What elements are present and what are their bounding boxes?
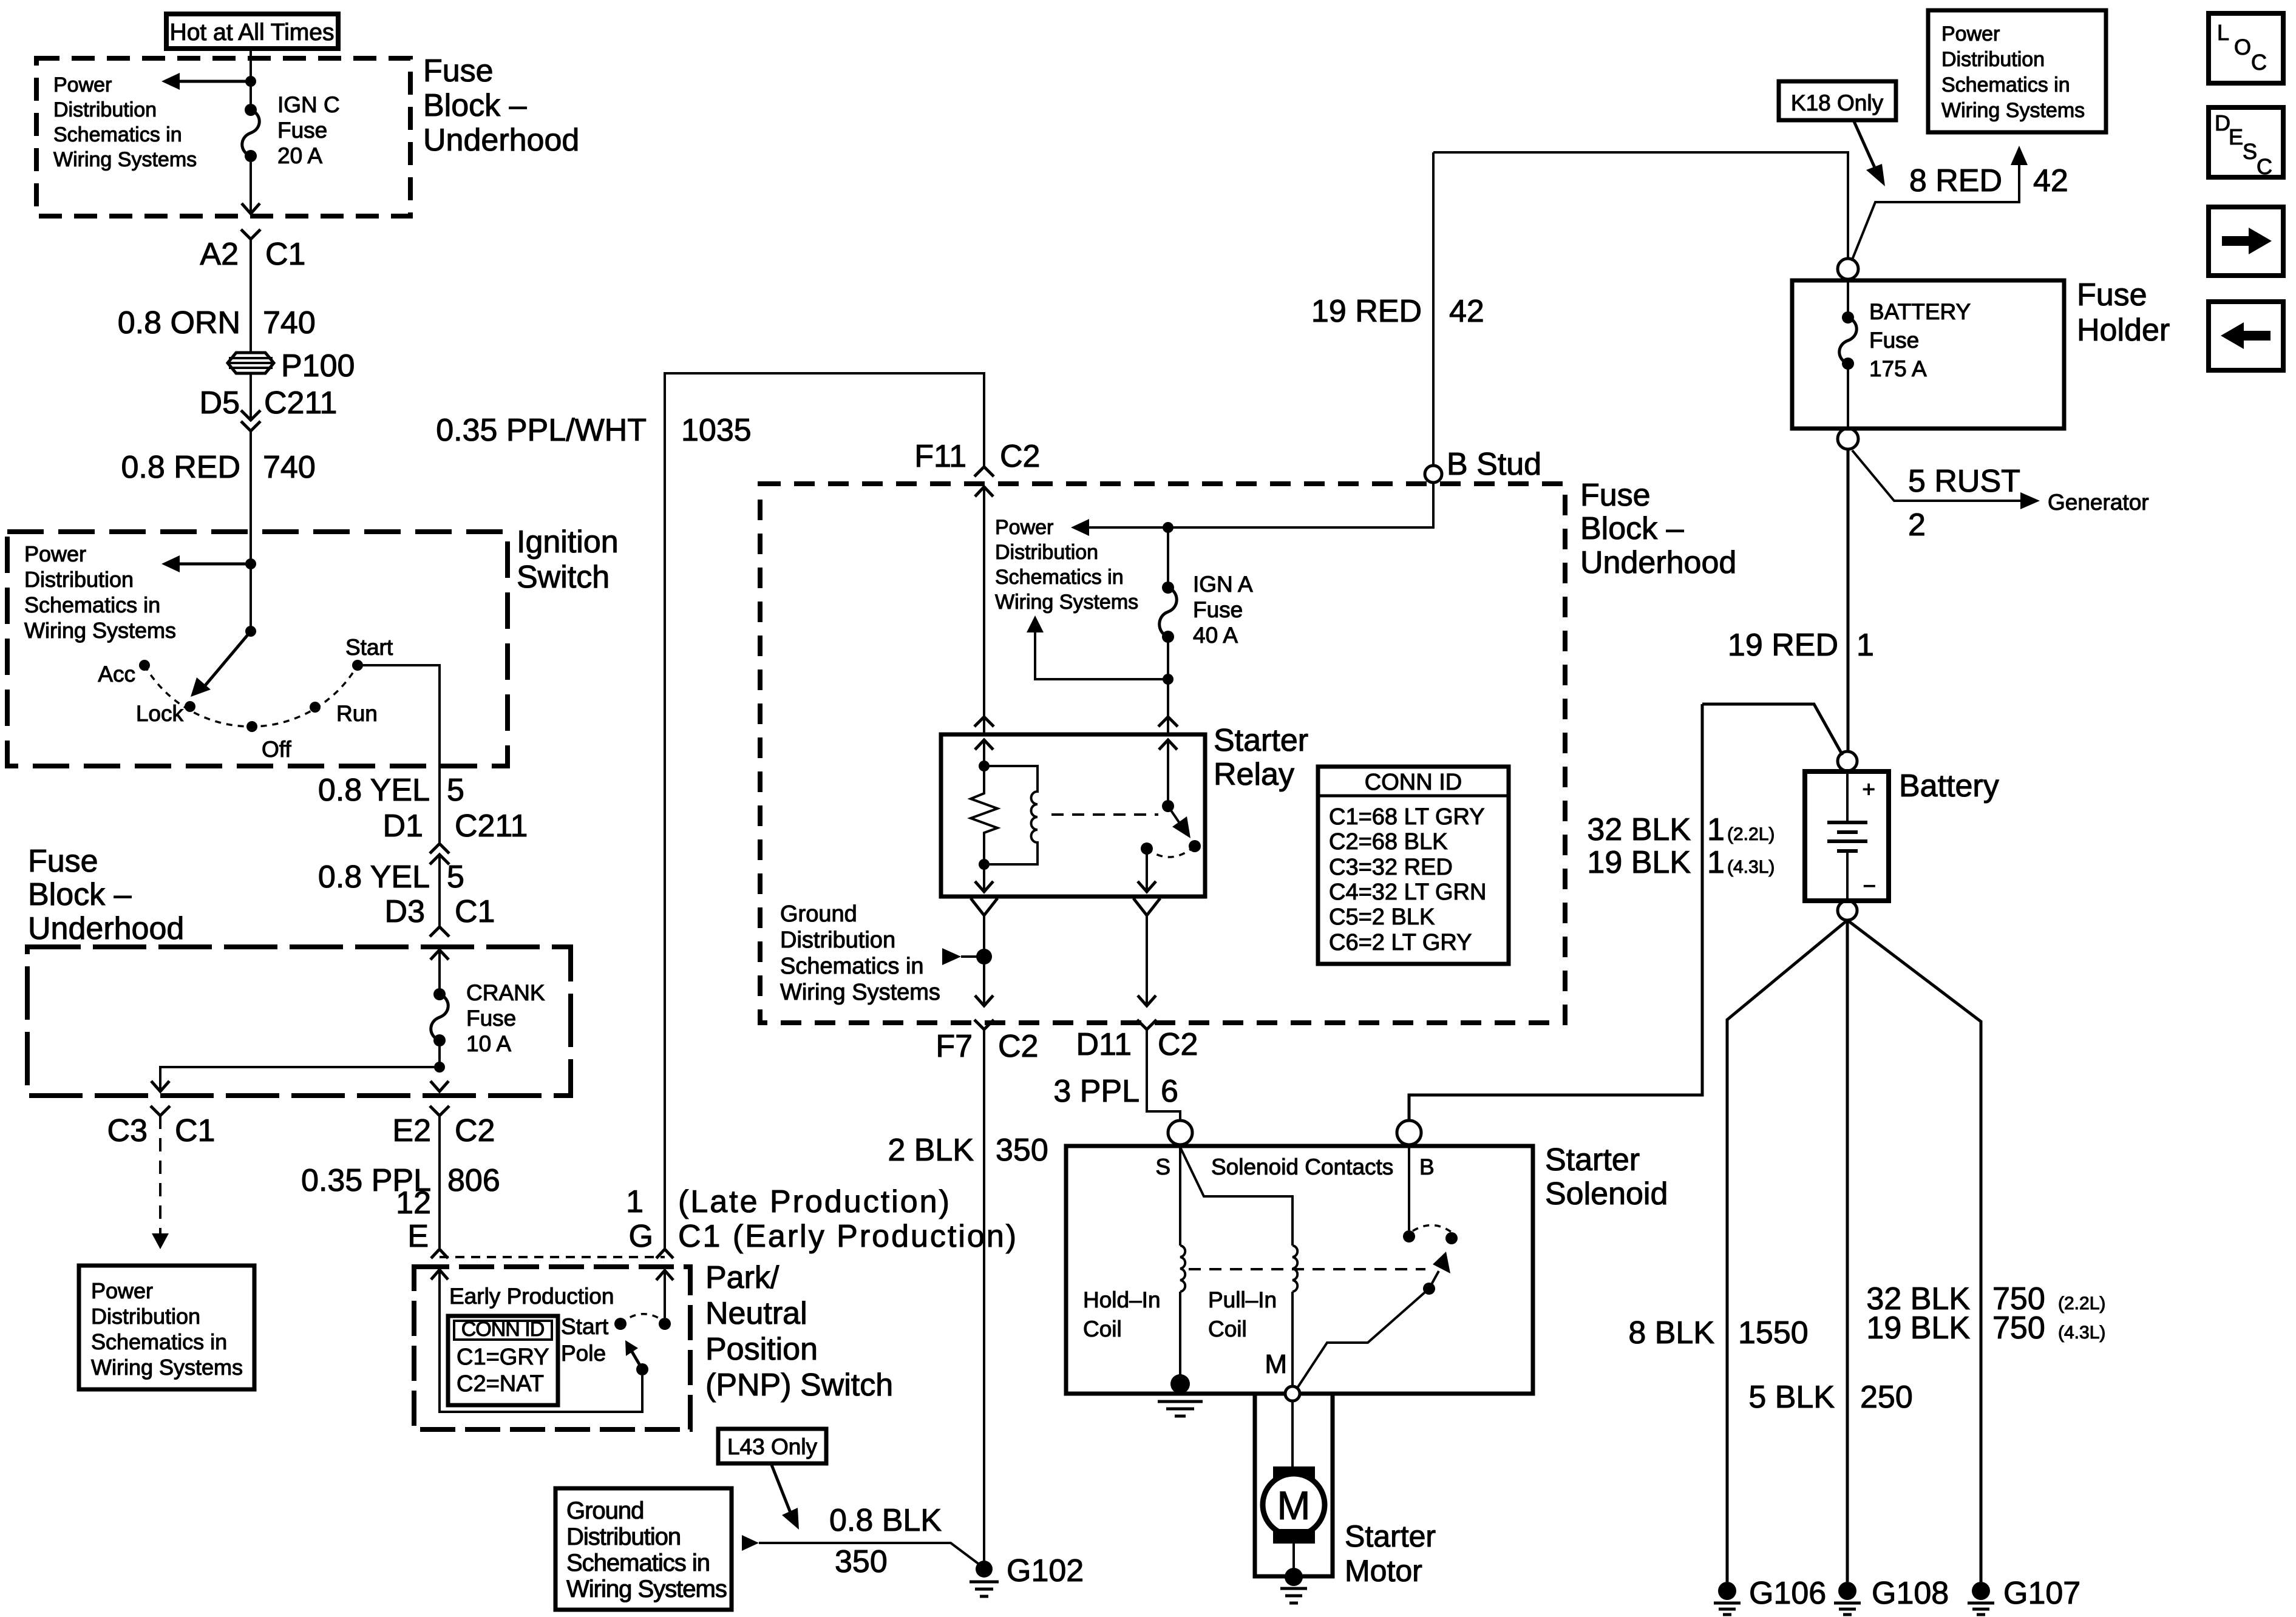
svg-text:D5: D5 bbox=[200, 385, 240, 421]
exit arrow D11 bbox=[1138, 995, 1156, 1006]
svg-text:0.8 BLK: 0.8 BLK bbox=[829, 1503, 942, 1538]
svg-text:L: L bbox=[2217, 20, 2229, 45]
svg-text:Fuse: Fuse bbox=[466, 1006, 516, 1031]
fuse IGN C 20 A bbox=[242, 92, 340, 168]
wire 0.35 PPL/WHT 1035 riser bbox=[665, 373, 984, 1249]
svg-text:C1=68 LT GRY: C1=68 LT GRY bbox=[1329, 804, 1485, 830]
wire from Hot at All Times to fuse IGN C bbox=[250, 49, 252, 110]
svg-text:Park/: Park/ bbox=[705, 1260, 779, 1295]
nav box arrow left bbox=[2209, 302, 2283, 370]
svg-text:Fuse: Fuse bbox=[2077, 277, 2147, 313]
svg-text:C3=32 RED: C3=32 RED bbox=[1329, 855, 1453, 880]
svg-text:Block –: Block – bbox=[28, 877, 132, 912]
svg-text:0.8 YEL: 0.8 YEL bbox=[318, 773, 430, 808]
svg-text:C2=NAT: C2=NAT bbox=[457, 1371, 544, 1397]
svg-text:C5=2 BLK: C5=2 BLK bbox=[1329, 904, 1435, 930]
svg-text:CONN ID: CONN ID bbox=[1365, 770, 1462, 795]
svg-text:Start: Start bbox=[561, 1314, 609, 1339]
connector chevron G bbox=[656, 1249, 673, 1258]
svg-text:5: 5 bbox=[447, 859, 464, 895]
arrow from K18 Only bbox=[1853, 120, 1885, 186]
svg-text:A2: A2 bbox=[200, 237, 239, 272]
connector C3 C1 bbox=[107, 1106, 216, 1148]
svg-text:D3: D3 bbox=[385, 894, 425, 929]
connector D3 C1 bbox=[385, 894, 495, 937]
wire fuse to box edge with exit arrow bbox=[242, 156, 260, 214]
label 32 BLK 1 (2.2L) bbox=[1587, 812, 1775, 847]
node junction dot on RED wire bbox=[245, 558, 256, 569]
relay coil terminal arrow (left) bbox=[975, 740, 993, 766]
node relay output contact dot bbox=[1141, 842, 1153, 855]
label 3 PPL 6 bbox=[1053, 1074, 1178, 1109]
connector A2 C1 bbox=[200, 229, 305, 272]
svg-text:Coil: Coil bbox=[1208, 1317, 1247, 1341]
wire 8 RED 42 branch with arrow up bbox=[1852, 146, 2028, 261]
svg-text:Starter: Starter bbox=[1345, 1519, 1436, 1553]
svg-text:750: 750 bbox=[1992, 1310, 2045, 1346]
dashed contact arc (solenoid) bbox=[1413, 1225, 1452, 1232]
node B terminal ring bbox=[1397, 1120, 1421, 1145]
starter solenoid box bbox=[1066, 1146, 1533, 1394]
svg-text:Fuse: Fuse bbox=[277, 118, 327, 143]
svg-text:M: M bbox=[1277, 1483, 1311, 1528]
label Starter Relay bbox=[1214, 723, 1308, 792]
ignition switch dashed box bbox=[7, 532, 508, 766]
svg-text:42: 42 bbox=[2033, 163, 2068, 198]
fuse IGN A 40 A bbox=[1160, 527, 1253, 648]
svg-text:Battery: Battery bbox=[1899, 768, 1999, 804]
table CONN ID (fuse block) bbox=[1318, 767, 1509, 964]
label Pull-In Coil bbox=[1208, 1287, 1277, 1341]
svg-text:F7: F7 bbox=[936, 1029, 973, 1064]
svg-text:F11: F11 bbox=[914, 439, 966, 474]
node relay NO contact dot bbox=[1189, 840, 1201, 852]
wire B terminal to battery junction bbox=[1409, 704, 1702, 1120]
fuse holder box bbox=[1792, 280, 2064, 429]
svg-text:Schematics in: Schematics in bbox=[91, 1329, 227, 1354]
node fuse holder top ring bbox=[1838, 259, 1858, 279]
svg-text:Ground: Ground bbox=[780, 901, 857, 927]
starter motor case bbox=[1255, 1394, 1333, 1576]
connector chevron E bbox=[431, 1249, 448, 1258]
svg-text:Fuse: Fuse bbox=[1193, 597, 1243, 622]
note Ground Distribution Schematics in Wiring Systems (middle) bbox=[780, 901, 977, 1005]
svg-text:C3: C3 bbox=[107, 1113, 148, 1148]
svg-text:IGN A: IGN A bbox=[1193, 572, 1253, 597]
svg-text:Generator: Generator bbox=[2048, 490, 2149, 515]
svg-text:Schematics in: Schematics in bbox=[995, 566, 1124, 589]
ground G108 bbox=[1834, 1576, 1949, 1615]
node blade pivot dot bbox=[1423, 1283, 1435, 1295]
wire dashed to power note bbox=[159, 1116, 161, 1233]
wire branch arrow up (power distribution) bbox=[1027, 615, 1168, 679]
svg-text:8 BLK: 8 BLK bbox=[1628, 1315, 1714, 1351]
arrow to power note (middle) bbox=[1071, 519, 1089, 536]
svg-text:Wiring Systems: Wiring Systems bbox=[566, 1576, 727, 1602]
node coil top dot bbox=[979, 761, 990, 771]
svg-text:Wiring Systems: Wiring Systems bbox=[91, 1355, 243, 1380]
svg-text:IGN C: IGN C bbox=[277, 92, 340, 117]
node fuse holder bottom ring bbox=[1838, 429, 1858, 449]
svg-text:Fuse: Fuse bbox=[28, 844, 98, 879]
svg-text:Power: Power bbox=[53, 73, 112, 97]
switch rotor arrow toward Lock bbox=[191, 631, 251, 697]
ground starter motor bbox=[1280, 1568, 1307, 1603]
svg-text:C1=GRY: C1=GRY bbox=[457, 1344, 549, 1370]
svg-text:C2: C2 bbox=[455, 1113, 495, 1148]
svg-text:CONN ID: CONN ID bbox=[461, 1318, 545, 1341]
svg-text:0.8 RED: 0.8 RED bbox=[121, 450, 240, 485]
svg-text:(4.3L): (4.3L) bbox=[1727, 857, 1775, 877]
dashed contact arc (relay) bbox=[1147, 846, 1195, 857]
label 0.8 YEL 5 (second) bbox=[318, 859, 464, 895]
connector D11 C2 bbox=[1076, 1020, 1198, 1062]
wire Start to box edge bbox=[358, 665, 440, 844]
svg-text:Pole: Pole bbox=[561, 1341, 606, 1366]
svg-text:Neutral: Neutral bbox=[705, 1296, 807, 1331]
svg-text:C211: C211 bbox=[264, 385, 337, 421]
svg-text:Wiring Systems: Wiring Systems bbox=[1941, 99, 2085, 122]
note Power Distribution Schematics in Wiring Systems (middle) bbox=[995, 516, 1138, 614]
wire 0.8 BLK 350 to G102 bbox=[742, 1535, 982, 1567]
svg-text:5: 5 bbox=[447, 773, 464, 808]
arrow from L43 Only bbox=[771, 1463, 799, 1530]
label 19 RED 42 bbox=[1311, 294, 1484, 329]
label Starter Motor bbox=[1345, 1519, 1436, 1588]
svg-text:Fuse: Fuse bbox=[423, 53, 494, 89]
svg-text:Power: Power bbox=[24, 541, 86, 566]
svg-text:Power: Power bbox=[91, 1278, 153, 1303]
svg-text:19 BLK: 19 BLK bbox=[1866, 1310, 1970, 1346]
svg-text:12: 12 bbox=[396, 1185, 431, 1221]
svg-text:Acc: Acc bbox=[98, 662, 135, 686]
svg-text:Lock: Lock bbox=[136, 701, 184, 726]
wire motor to ground bbox=[1292, 1544, 1295, 1572]
label 19 BLK 750 (4.3L) bbox=[1866, 1310, 2105, 1346]
connector F7 C2 bbox=[936, 1020, 1038, 1064]
svg-text:1035: 1035 bbox=[681, 413, 752, 448]
note Power Distribution Schematics in Wiring Systems (bottom left box) bbox=[79, 1266, 254, 1389]
svg-text:Fuse: Fuse bbox=[1580, 478, 1651, 513]
label Fuse Block - Underhood (left) bbox=[28, 844, 184, 946]
svg-text:E: E bbox=[407, 1219, 429, 1254]
label 2 BLK 350 bbox=[888, 1133, 1048, 1168]
svg-text:C2=68 BLK: C2=68 BLK bbox=[1329, 829, 1447, 855]
relay blade arrow bbox=[1168, 806, 1190, 838]
splice P100 bbox=[228, 348, 355, 384]
svg-text:19 BLK: 19 BLK bbox=[1587, 845, 1691, 880]
wire B Stud feed 19 RED 42 bbox=[1087, 152, 1848, 527]
wire F11 entry arrow down to relay bbox=[975, 487, 993, 733]
pin 12 E labels bbox=[396, 1185, 431, 1254]
svg-text:C1: C1 bbox=[265, 237, 305, 272]
svg-text:C1: C1 bbox=[455, 894, 495, 929]
wire E2 to PNP switch bbox=[438, 1116, 441, 1248]
label Park/Neutral Position (PNP) Switch bbox=[705, 1260, 893, 1403]
svg-text:Distribution: Distribution bbox=[566, 1524, 681, 1550]
svg-text:Wiring Systems: Wiring Systems bbox=[24, 618, 176, 643]
ignition switch contact arc (dashed) bbox=[144, 665, 358, 727]
svg-text:6: 6 bbox=[1161, 1074, 1178, 1109]
node ground-note junction dot bbox=[976, 949, 992, 964]
svg-text:C2: C2 bbox=[1000, 439, 1040, 474]
node junction dot bbox=[245, 76, 256, 87]
svg-text:0.8 YEL: 0.8 YEL bbox=[318, 859, 430, 895]
wire A2 to P100 bbox=[250, 239, 252, 353]
contact Run bbox=[310, 701, 378, 726]
wire E entry arrow and path to moving contact bbox=[431, 1270, 642, 1412]
svg-text:1550: 1550 bbox=[1738, 1315, 1809, 1351]
svg-text:Block –: Block – bbox=[1580, 511, 1684, 546]
node S terminal ring bbox=[1168, 1120, 1192, 1145]
svg-text:1: 1 bbox=[1856, 628, 1874, 663]
wire M terminal to motor bbox=[1291, 1401, 1294, 1468]
svg-text:Starter: Starter bbox=[1214, 723, 1308, 758]
node switch common dot bbox=[1162, 800, 1174, 812]
wire below fuse with junction bbox=[1167, 637, 1169, 679]
connector E2 C2 bbox=[392, 1106, 495, 1148]
wire generator branch 5 RUST 2 bbox=[1852, 450, 2040, 509]
svg-text:Starter: Starter bbox=[1545, 1142, 1640, 1178]
svg-text:740: 740 bbox=[263, 305, 316, 341]
label box L43 Only bbox=[718, 1429, 826, 1463]
svg-text:10 A: 10 A bbox=[466, 1031, 511, 1056]
svg-text:Run: Run bbox=[336, 701, 378, 726]
wire relay to F7 bbox=[983, 915, 985, 1004]
svg-text:Position: Position bbox=[705, 1332, 818, 1367]
node M terminal ring bbox=[1285, 1386, 1300, 1401]
relay linkage dashed bbox=[1051, 813, 1158, 816]
svg-text:Ground: Ground bbox=[566, 1497, 644, 1524]
svg-text:5 RUST: 5 RUST bbox=[1908, 464, 2020, 499]
svg-text:+: + bbox=[1862, 777, 1875, 802]
svg-text:L43 Only: L43 Only bbox=[727, 1434, 818, 1459]
svg-text:Distribution: Distribution bbox=[995, 541, 1098, 564]
node NO contact dot bbox=[1445, 1232, 1458, 1244]
wire entry arrow into fuse block bbox=[430, 950, 449, 994]
svg-text:Distribution: Distribution bbox=[1941, 48, 2045, 71]
svg-text:Relay: Relay bbox=[1214, 757, 1294, 792]
svg-text:BATTERY: BATTERY bbox=[1869, 299, 1971, 324]
note Power Distribution Schematics in Wiring Systems (top left) bbox=[53, 73, 197, 171]
svg-text:Schematics in: Schematics in bbox=[1941, 73, 2070, 97]
svg-text:Start: Start bbox=[345, 635, 393, 660]
wire F7 to G102 bbox=[983, 1029, 985, 1562]
svg-text:C1: C1 bbox=[175, 1113, 215, 1148]
contact Start bbox=[345, 635, 393, 671]
svg-text:175 A: 175 A bbox=[1869, 356, 1927, 381]
svg-text:250: 250 bbox=[1860, 1380, 1913, 1415]
svg-text:C2: C2 bbox=[1158, 1027, 1198, 1062]
label box DESC bbox=[2209, 107, 2283, 179]
svg-text:2: 2 bbox=[1908, 507, 1926, 543]
svg-text:1: 1 bbox=[626, 1184, 644, 1219]
contact Acc bbox=[98, 660, 150, 686]
contact Off bbox=[246, 721, 291, 762]
wire S into solenoid, hold-in branch bbox=[1179, 1145, 1181, 1246]
relay switch common arrow (right) bbox=[1159, 740, 1177, 806]
svg-text:Ignition: Ignition bbox=[517, 524, 619, 560]
pole arrow up to G bbox=[656, 1270, 673, 1318]
label Ignition Switch bbox=[517, 524, 619, 595]
fuse block underhood dashed box (top left) bbox=[36, 58, 410, 216]
wire to relay right terminal bbox=[1167, 679, 1169, 733]
svg-text:0.35 PPL/WHT: 0.35 PPL/WHT bbox=[436, 413, 647, 448]
svg-text:32 BLK: 32 BLK bbox=[1587, 812, 1691, 847]
wire pull-in branch bbox=[1180, 1147, 1292, 1246]
wire D5 to ignition switch bbox=[250, 431, 252, 564]
battery box bbox=[1805, 771, 1889, 901]
svg-text:42: 42 bbox=[1449, 294, 1484, 329]
svg-text:Off: Off bbox=[262, 737, 291, 762]
label box LOC bbox=[2209, 13, 2283, 83]
node rotor dot bbox=[245, 626, 256, 637]
connector D1 C211 bbox=[383, 808, 528, 864]
wire fuse to bottom ring bbox=[1847, 364, 1849, 429]
svg-text:2 BLK: 2 BLK bbox=[888, 1133, 974, 1168]
svg-text:Pull–In: Pull–In bbox=[1208, 1287, 1277, 1312]
motor brush top bbox=[1273, 1466, 1315, 1481]
svg-text:Wiring Systems: Wiring Systems bbox=[780, 980, 940, 1005]
svg-text:1: 1 bbox=[1707, 812, 1725, 847]
label Fuse Block - Underhood (middle right) bbox=[1580, 478, 1736, 580]
svg-text:(Late Production): (Late Production) bbox=[678, 1184, 951, 1219]
solenoid linkage dashed bbox=[1189, 1268, 1425, 1270]
svg-text:Schematics in: Schematics in bbox=[24, 592, 160, 617]
wire D1 to D3 bbox=[438, 855, 441, 927]
label 8 BLK 1550 bbox=[1628, 1315, 1808, 1351]
pin 1 G labels bbox=[626, 1184, 653, 1254]
svg-text:350: 350 bbox=[996, 1133, 1048, 1168]
exit arrow C3 branch bbox=[151, 1081, 169, 1091]
node battery negative ring bbox=[1838, 901, 1857, 920]
svg-text:P100: P100 bbox=[281, 348, 355, 384]
fuse block underhood dashed box (left) bbox=[27, 947, 571, 1096]
svg-text:Power: Power bbox=[995, 516, 1053, 539]
svg-text:5 BLK: 5 BLK bbox=[1748, 1380, 1835, 1415]
label 0.8 ORN 740 bbox=[118, 305, 316, 341]
svg-text:(2.2L): (2.2L) bbox=[2058, 1293, 2105, 1314]
coil (relay) bbox=[984, 766, 1038, 864]
note Power Distribution Schematics in Wiring Systems (top right box) bbox=[1928, 10, 2106, 132]
svg-text:Solenoid: Solenoid bbox=[1545, 1176, 1668, 1212]
fuse block underhood dashed box (middle) bbox=[760, 484, 1565, 1023]
label Fuse Block - Underhood (top) bbox=[423, 53, 579, 158]
motor brush bottom bbox=[1273, 1529, 1315, 1544]
svg-text:C2: C2 bbox=[998, 1029, 1038, 1064]
resistor (relay) bbox=[971, 766, 997, 864]
svg-text:−: − bbox=[1863, 873, 1876, 898]
svg-text:G106: G106 bbox=[1749, 1576, 1826, 1611]
wire branch to G106 bbox=[1727, 920, 1847, 1582]
svg-text:740: 740 bbox=[263, 450, 316, 485]
svg-text:806: 806 bbox=[447, 1163, 500, 1198]
svg-text:8 RED: 8 RED bbox=[1909, 163, 2002, 198]
svg-text:G: G bbox=[629, 1219, 653, 1254]
node junction dot above IGN A bbox=[1163, 522, 1173, 533]
svg-text:Motor: Motor bbox=[1345, 1554, 1422, 1588]
contact Start pole dot bbox=[614, 1318, 627, 1330]
label 0.8 YEL 5 bbox=[318, 773, 464, 808]
svg-text:(PNP) Switch: (PNP) Switch bbox=[705, 1368, 893, 1403]
node B contact dot bbox=[1403, 1230, 1415, 1242]
pull-in coil bbox=[1292, 1246, 1297, 1292]
hold-in coil bbox=[1180, 1246, 1185, 1292]
relay coil output arrow down bbox=[975, 864, 993, 892]
label box K18 Only bbox=[1779, 81, 1896, 120]
solenoid blade arrow bbox=[1429, 1252, 1450, 1289]
svg-text:Distribution: Distribution bbox=[91, 1304, 200, 1329]
label 32 BLK 750 (2.2L) bbox=[1866, 1281, 2105, 1317]
ground G107 bbox=[1968, 1576, 2080, 1615]
svg-text:Schematics in: Schematics in bbox=[780, 954, 924, 979]
node coil bottom dot bbox=[979, 859, 990, 870]
connector F11 C2 bbox=[914, 439, 1040, 476]
wire hold-in to case ground bbox=[1179, 1292, 1181, 1384]
svg-text:S: S bbox=[1155, 1154, 1170, 1179]
label Hold-In Coil bbox=[1083, 1287, 1161, 1341]
svg-text:Distribution: Distribution bbox=[53, 98, 157, 121]
ground G102 bbox=[970, 1553, 1084, 1596]
svg-text:O: O bbox=[2234, 35, 2251, 59]
svg-text:Hold–In: Hold–In bbox=[1083, 1287, 1161, 1312]
exit arrow E2 branch bbox=[430, 1081, 449, 1091]
svg-text:Early Production: Early Production bbox=[449, 1284, 614, 1309]
node pole dot bbox=[659, 1318, 671, 1330]
labels Start Pole bbox=[561, 1314, 609, 1366]
label Starter Solenoid bbox=[1545, 1142, 1668, 1212]
svg-text:(4.3L): (4.3L) bbox=[2058, 1323, 2105, 1343]
starter relay K box bbox=[941, 734, 1205, 897]
ground hold-in coil (case) bbox=[1158, 1374, 1203, 1416]
svg-text:C: C bbox=[2251, 50, 2267, 75]
svg-text:Distribution: Distribution bbox=[780, 927, 895, 953]
label 5 BLK 250 bbox=[1748, 1380, 1912, 1415]
fuse CRANK 10 A bbox=[431, 980, 545, 1056]
nav box arrow right bbox=[2209, 207, 2283, 276]
svg-text:19 RED: 19 RED bbox=[1728, 628, 1838, 663]
svg-text:C211: C211 bbox=[455, 808, 528, 844]
svg-text:CRANK: CRANK bbox=[466, 980, 545, 1005]
svg-text:Schematics in: Schematics in bbox=[566, 1550, 710, 1576]
svg-text:20 A: 20 A bbox=[277, 143, 322, 168]
svg-text:Underhood: Underhood bbox=[28, 911, 184, 946]
svg-text:C1 (Early Production): C1 (Early Production) bbox=[678, 1219, 1018, 1254]
label 0.8 BLK 350 bbox=[829, 1503, 942, 1579]
ground G106 bbox=[1714, 1576, 1826, 1615]
svg-text:C6=2 LT GRY: C6=2 LT GRY bbox=[1329, 930, 1472, 955]
wire 19 RED 1 to battery bbox=[1847, 449, 1850, 752]
svg-text:Block –: Block – bbox=[423, 88, 527, 123]
svg-text:G108: G108 bbox=[1872, 1576, 1949, 1611]
wire branch to solenoid B bbox=[1702, 704, 1843, 755]
svg-text:M: M bbox=[1265, 1349, 1287, 1379]
svg-text:B Stud: B Stud bbox=[1447, 447, 1541, 482]
svg-text:C: C bbox=[2257, 154, 2272, 179]
wire junction left branch bbox=[160, 1067, 440, 1091]
svg-text:3 PPL: 3 PPL bbox=[1053, 1074, 1140, 1109]
svg-text:D11: D11 bbox=[1076, 1027, 1132, 1062]
wire D11 to solenoid S bbox=[1147, 1029, 1180, 1121]
node junction dot bbox=[1163, 674, 1173, 685]
svg-text:Distribution: Distribution bbox=[24, 567, 134, 592]
note Power Distribution Schematics in Wiring Systems (ignition) bbox=[24, 541, 176, 643]
relay terminal chevron right bbox=[1158, 717, 1178, 727]
svg-text:Holder: Holder bbox=[2077, 313, 2170, 348]
svg-text:1: 1 bbox=[1707, 845, 1725, 880]
label 19 BLK 1 (4.3L) bbox=[1587, 845, 1775, 880]
label 0.35 PPL/WHT 1035 bbox=[436, 413, 751, 448]
